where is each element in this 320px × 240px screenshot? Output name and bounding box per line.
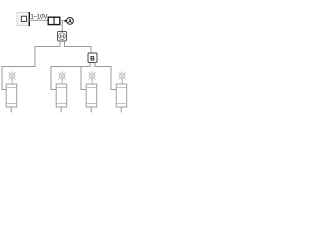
dimmer potentiometer (flush device square)	[21, 16, 26, 21]
wire dimmer to ballast (1-10V control line)	[27, 19, 49, 21]
node A label	[67, 18, 74, 25]
luminaire E2 housing	[56, 84, 66, 107]
box B (cable label)	[88, 53, 97, 63]
luminaire E3 lamp symbol	[88, 71, 96, 84]
luminaire E1 housing	[6, 84, 17, 107]
luminaire E3 bottom stub	[90, 107, 92, 113]
node A arrow	[63, 20, 66, 23]
luminaire E4 housing	[116, 84, 127, 107]
luminaire E4 lamp symbol	[118, 71, 126, 84]
luminaire E3 housing	[86, 84, 97, 107]
label 1-10V	[30, 13, 48, 20]
wire ballast to junction	[60, 20, 63, 31]
box B legs	[90, 63, 95, 68]
wire B left bus to luminaire 2	[51, 67, 90, 90]
wire right branch to box B	[65, 47, 92, 54]
luminaire E1 bottom stub	[10, 107, 12, 113]
svg-text:A: A	[68, 19, 72, 25]
wire left branch to luminaire 1	[2, 47, 60, 90]
wire T-drop to luminaire 3	[81, 67, 86, 90]
junction box legs	[60, 41, 65, 47]
svg-text:1–10V: 1–10V	[30, 13, 48, 20]
luminaire E1 lamp symbol	[8, 71, 16, 84]
wall hatch (flush-mount wall section)	[17, 12, 29, 25]
svg-text:B: B	[90, 56, 95, 63]
wall surface line	[28, 12, 30, 26]
luminaire E2 bottom stub	[60, 107, 62, 113]
luminaire E2 lamp symbol	[58, 71, 66, 84]
ballast / control unit U1 (two-cell box)	[48, 17, 60, 24]
wire B right bus to luminaire 4	[95, 67, 116, 90]
luminaire E4 bottom stub	[120, 107, 122, 113]
junction box J1 (circle with terminals)	[58, 32, 67, 42]
